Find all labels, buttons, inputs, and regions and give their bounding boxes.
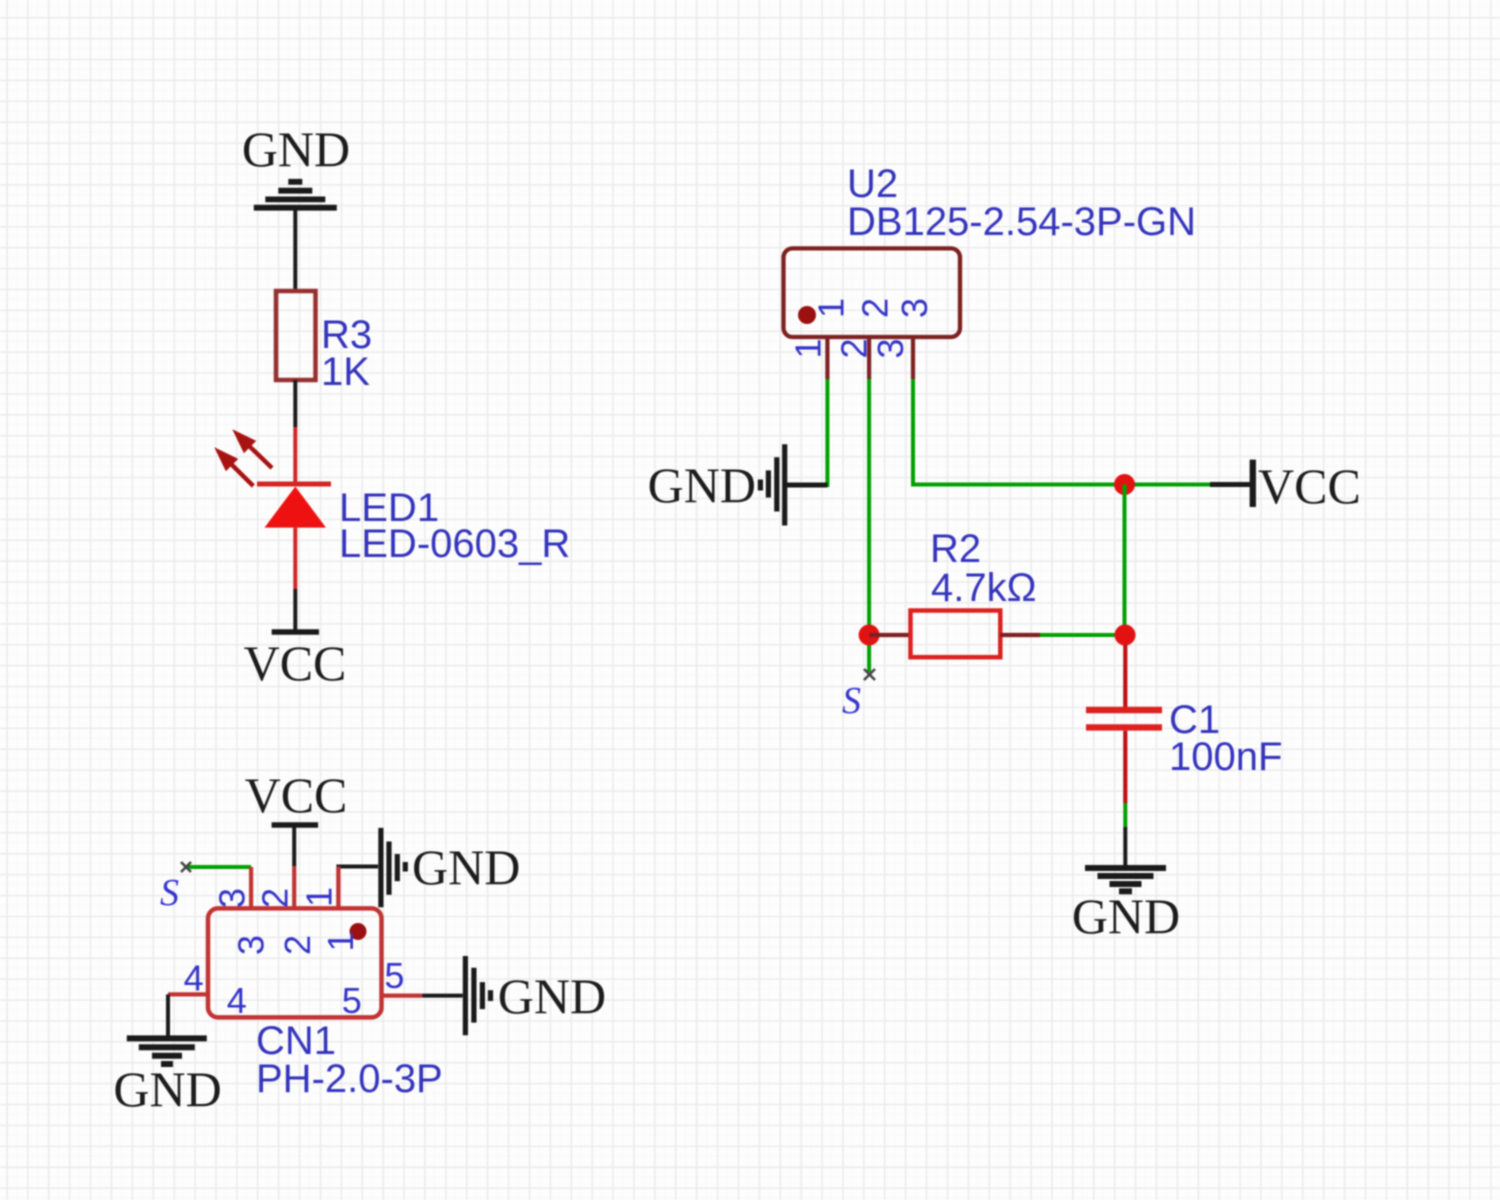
wire R2 to C1 node (1040, 633, 1125, 637)
svg-text:3: 3 (211, 888, 252, 908)
connector U2 (784, 248, 961, 337)
svg-text:2: 2 (855, 298, 896, 318)
resistor R2 left pin (869, 633, 910, 637)
wire (293, 380, 297, 427)
svg-text:4.7kΩ: 4.7kΩ (931, 566, 1037, 610)
svg-text:VCC: VCC (245, 767, 348, 823)
svg-text:2: 2 (254, 888, 295, 908)
svg-text:5: 5 (384, 955, 404, 996)
wire VCC rail down to C1 node (1123, 485, 1127, 636)
svg-text:DB125-2.54-3P-GN: DB125-2.54-3P-GN (847, 200, 1196, 244)
ground (top, pointing up) (254, 182, 337, 208)
svg-text:R2: R2 (930, 527, 981, 571)
svg-text:VCC: VCC (1258, 458, 1361, 514)
connector CN1 (208, 908, 382, 1017)
svg-text:1K: 1K (321, 350, 370, 394)
svg-text:VCC: VCC (244, 635, 347, 691)
svg-text:GND: GND (242, 121, 350, 177)
wire pin2 down to node S (867, 379, 871, 672)
wire (293, 208, 297, 292)
junction at R2 left (859, 625, 880, 646)
ground (below C1) (1085, 868, 1166, 891)
svg-text:1: 1 (299, 887, 340, 907)
U2 pin stubs (827, 337, 913, 379)
svg-text:4: 4 (227, 980, 247, 1021)
svg-text:100nF: 100nF (1169, 735, 1282, 779)
svg-text:GND: GND (648, 457, 756, 513)
ground (right of CN1 pin5) (465, 956, 490, 1035)
svg-text:2: 2 (277, 935, 318, 955)
resistor R2 body (911, 611, 1001, 658)
svg-text:3: 3 (894, 298, 935, 318)
svg-text:1: 1 (787, 338, 828, 358)
wire C1 to GND (1123, 803, 1127, 827)
wire pin3 to VCC rail (913, 379, 1210, 485)
wire (293, 589, 297, 630)
svg-text:GND: GND (498, 968, 606, 1024)
pin stubs CN1 top (251, 866, 338, 908)
svg-text:GND: GND (113, 1061, 221, 1117)
svg-text:S: S (160, 872, 179, 914)
power VCC (bottom of LED chain) (272, 629, 319, 635)
svg-text:PH-2.0-3P: PH-2.0-3P (256, 1057, 443, 1101)
power VCC (right) (1210, 482, 1250, 487)
pin-1 marker dot CN1 (350, 923, 367, 940)
ground (right of CN1 pin1) (381, 828, 405, 907)
junction at C1 top (1115, 625, 1136, 646)
wire pin1 to GND (787, 379, 827, 485)
capacitor C1 (1086, 645, 1162, 803)
resistor R3 (276, 291, 316, 380)
svg-text:5: 5 (342, 980, 362, 1021)
wire pin1 CN1 to GND (338, 867, 378, 909)
open end marker S (181, 862, 191, 872)
svg-text:1: 1 (320, 931, 361, 951)
resistor R2 right pin (1000, 633, 1040, 637)
svg-text:4: 4 (184, 957, 204, 998)
svg-text:S: S (842, 680, 861, 722)
svg-text:3: 3 (870, 338, 911, 358)
svg-text:GND: GND (412, 839, 520, 895)
junction VCC rail (1114, 474, 1135, 495)
LED LED1 (219, 427, 331, 589)
wire S (CN1 side) (185, 865, 251, 869)
ground (left of U2, pointing left) (760, 444, 827, 525)
open end marker S (864, 669, 875, 680)
svg-text:GND: GND (1072, 888, 1180, 944)
svg-text:1: 1 (811, 298, 852, 318)
pin-1 marker dot U2 (798, 306, 816, 324)
svg-text:3: 3 (231, 935, 272, 955)
svg-text:LED-0603_R: LED-0603_R (339, 522, 570, 566)
ground (below CN1 pin4) (127, 1038, 207, 1064)
